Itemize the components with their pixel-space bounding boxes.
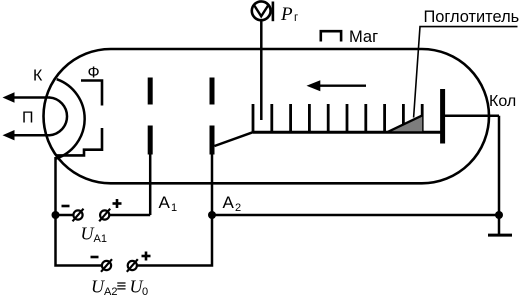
heater lead top	[3, 92, 51, 102]
cathode arc K	[55, 79, 84, 159]
wire collector right	[445, 114, 499, 117]
anode A1 bottom bar	[148, 126, 153, 155]
plus sign UA1	[113, 199, 122, 208]
svg-text:П: П	[22, 110, 34, 127]
leader line	[414, 27, 518, 118]
wire P_g probe	[260, 20, 263, 120]
tube envelope	[44, 49, 490, 183]
slow-wave comb base	[253, 131, 441, 134]
wire plus UA2 to A2	[137, 215, 212, 266]
wire junction down left	[56, 215, 102, 266]
svg-text:г: г	[294, 12, 298, 24]
svg-text:P: P	[280, 4, 293, 25]
collector bar	[440, 89, 445, 144]
wire diagonal A2 to comb	[215, 132, 255, 146]
ground	[488, 215, 512, 235]
focusing electrode F top	[81, 81, 102, 106]
wire cathode down	[54, 157, 57, 215]
anode A1 top bar	[148, 78, 153, 105]
magnet symbol	[321, 31, 341, 41]
node A2 junction	[208, 211, 216, 219]
svg-text:А: А	[223, 193, 235, 212]
svg-text:Маг: Маг	[349, 28, 378, 46]
svg-text:Ф: Ф	[88, 65, 100, 82]
wire A2 down	[211, 155, 214, 216]
wire A2 junction to ground	[212, 214, 499, 217]
focusing electrode F bottom + strap	[57, 128, 103, 155]
svg-text:Поглотитель: Поглотитель	[424, 8, 520, 26]
svg-text:U: U	[91, 277, 105, 295]
plus sign UA2	[142, 252, 151, 261]
minus sign UA1	[62, 205, 70, 208]
comb teeth	[253, 104, 422, 132]
terminal UA2 plus	[127, 259, 138, 272]
wire collector down	[498, 116, 501, 215]
node ground junction	[495, 211, 503, 219]
heater loop	[50, 98, 68, 136]
svg-text:А1: А1	[94, 233, 107, 245]
meter P_g	[252, 1, 273, 21]
wire junction to minus terminal	[56, 214, 74, 217]
absorber triangle	[388, 115, 423, 132]
terminal UA2 minus	[101, 259, 112, 272]
svg-text:U: U	[81, 224, 95, 244]
anode A2 top bar	[210, 78, 215, 105]
minus sign UA2	[91, 256, 99, 259]
svg-text:К: К	[33, 68, 43, 85]
svg-text:0: 0	[142, 286, 148, 295]
svg-text:1: 1	[171, 202, 177, 214]
terminal UA1 plus	[99, 209, 110, 222]
wire plus to A1	[109, 214, 150, 217]
node cathode junction	[52, 211, 60, 219]
terminal UA1 minus	[73, 209, 84, 222]
heater lead bottom	[3, 130, 51, 140]
svg-text:А2: А2	[104, 286, 117, 295]
svg-text:А: А	[159, 193, 171, 212]
arrow wave direction	[307, 80, 367, 91]
wire A1 down	[149, 155, 152, 216]
svg-text:Кол: Кол	[489, 93, 516, 110]
svg-text:2: 2	[235, 202, 241, 214]
anode A2 bottom bar	[210, 126, 215, 155]
svg-text:≡: ≡	[117, 277, 127, 295]
